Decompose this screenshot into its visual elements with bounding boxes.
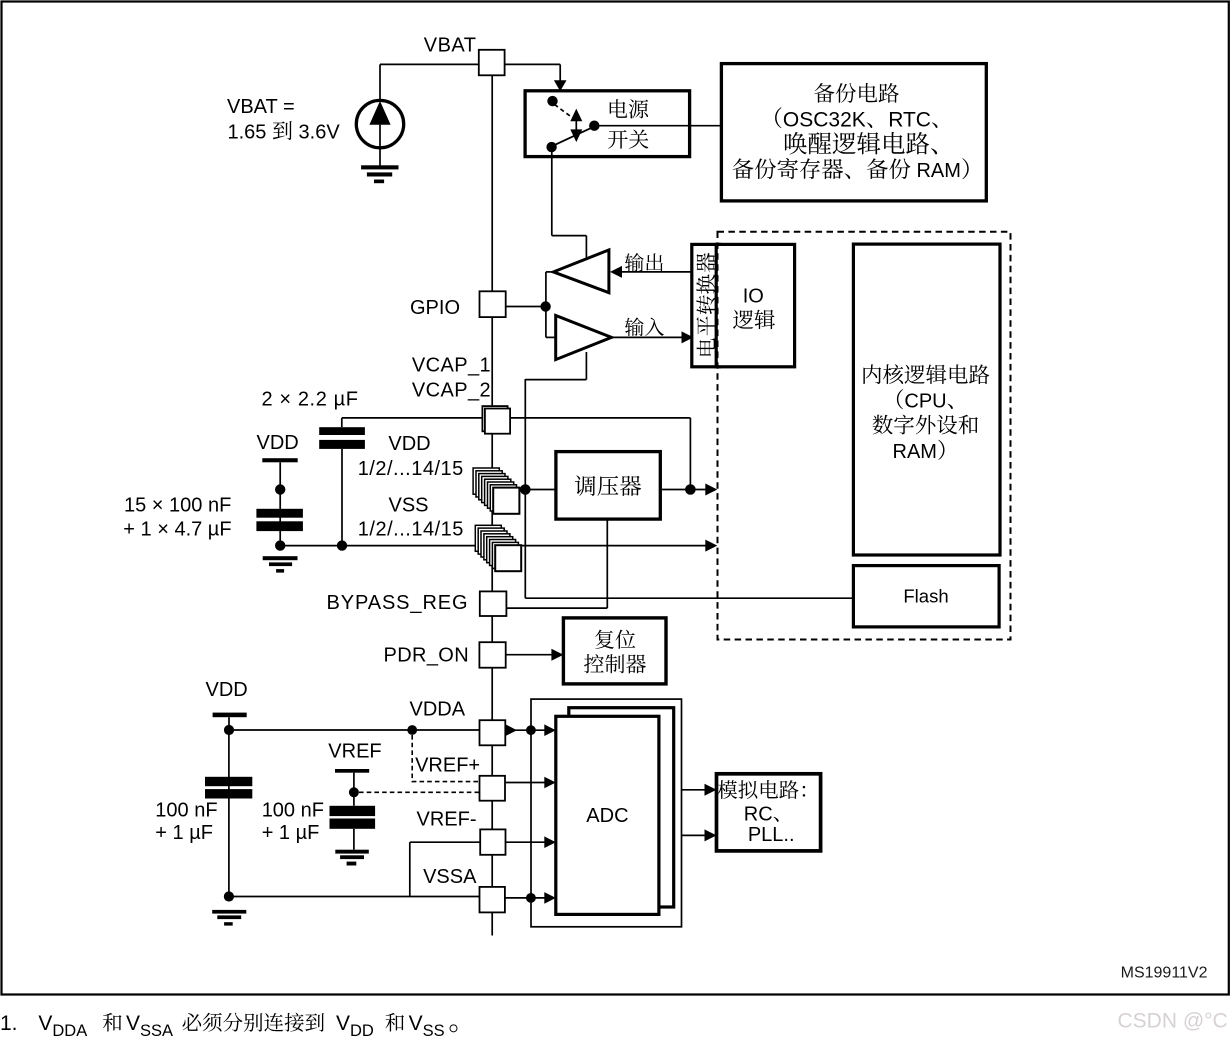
svg-text:CSDN @°C: CSDN @°C [1118, 1010, 1228, 1033]
label analog line3 [748, 824, 795, 846]
label ADC [586, 805, 628, 827]
svg-text:VSSA: VSSA [423, 866, 477, 888]
Flash box [853, 566, 999, 627]
wire ADC to analog 2 [682, 834, 706, 836]
svg-text:VCAP_2: VCAP_2 [412, 380, 491, 402]
pin VCAP back [482, 406, 507, 431]
label backup line4 [732, 158, 968, 182]
label VDD pins [388, 433, 430, 455]
wire VDDA rail [229, 729, 480, 731]
svg-text:RTC: RTC [888, 108, 931, 131]
level shifter box [692, 244, 720, 366]
pin PDR_ON [479, 642, 505, 668]
label VREF cap value2 [262, 822, 320, 844]
wire BYPASS_REG [506, 607, 607, 609]
note 1 footnote [0, 1012, 457, 1040]
wire VDDA to ADC [505, 729, 545, 731]
label VCAP_1 [412, 355, 491, 377]
label BYPASS_REG [326, 592, 468, 614]
arrow VREF- into ADC [544, 836, 556, 848]
VDD supply bar [262, 458, 297, 462]
pin VSSA [480, 887, 505, 913]
svg-text:1.: 1. [0, 1012, 18, 1035]
wire VBAT left [380, 63, 479, 65]
arrow into level shifter [682, 331, 694, 343]
label left cap value1 [155, 799, 217, 821]
svg-text:2 × 2.2 µF: 2 × 2.2 µF [262, 388, 359, 410]
node C1-VSS junction [337, 540, 347, 550]
svg-text:SS: SS [423, 1022, 445, 1040]
svg-text:100 nF: 100 nF [262, 799, 324, 821]
label switch 开关 [608, 130, 648, 149]
switch solid throw [553, 127, 593, 146]
svg-text:15 × 100 nF: 15 × 100 nF [124, 494, 231, 516]
wire switch to backup [594, 125, 721, 127]
dashed VREF to VREF+ [359, 791, 480, 793]
node VDD junction [520, 484, 531, 495]
label backup line2 [775, 107, 937, 131]
wire PDR_ON [506, 654, 552, 656]
core logic box [853, 244, 1000, 555]
svg-text:VCAP_1: VCAP_1 [412, 355, 491, 377]
capacitor C3 [330, 806, 376, 829]
pin VREF+ [480, 776, 506, 801]
label core line1 [863, 364, 989, 384]
VDD bottom supply bar [213, 713, 247, 718]
svg-text:VSS: VSS [389, 495, 429, 517]
svg-text:VREF-: VREF- [417, 809, 477, 831]
svg-text:+ 1 µF: + 1 µF [155, 822, 213, 844]
svg-text:RAM: RAM [893, 441, 937, 463]
label VCAP_2 [412, 380, 491, 402]
svg-text:PDR_ON: PDR_ON [384, 645, 469, 667]
arrow VSSA into ADC [544, 892, 556, 904]
svg-text:VDD: VDD [206, 679, 248, 701]
label VREF [328, 741, 381, 763]
watermark CSDN [1118, 1010, 1228, 1033]
dashed core logic area [718, 232, 1011, 640]
wire GPIO to buffers [506, 306, 546, 308]
label VBAT value line2 [228, 121, 341, 143]
svg-text:MS19911V2: MS19911V2 [1121, 965, 1208, 982]
svg-text:V: V [336, 1012, 350, 1035]
label core line3 [873, 415, 978, 435]
svg-text:VBAT =: VBAT = [227, 96, 295, 118]
ADC box front [556, 716, 659, 914]
label GPIO pin [410, 297, 460, 319]
node VSSA left junction [224, 891, 234, 901]
wire regulator to bypass [606, 519, 608, 608]
label backup line1 [814, 83, 899, 103]
wire VBAT right [505, 64, 561, 81]
wire VREF- to ADC [506, 841, 546, 843]
arrow VSS into core [705, 540, 717, 552]
label VREF+ [415, 754, 480, 776]
pin BYPASS_REG [480, 591, 507, 616]
pin stack VSS 1..15 [475, 525, 521, 571]
battery source V1 [356, 64, 403, 165]
pin stack VDD 1..15 [473, 468, 519, 514]
arrow into analog 2 [705, 829, 717, 841]
wire VSSA to ADC [505, 897, 545, 899]
svg-text:OSC32K: OSC32K [783, 108, 866, 131]
svg-text:1/2/...14/15: 1/2/...14/15 [358, 458, 464, 480]
wire input buffer bottom [525, 352, 586, 380]
wire VDD supply down [279, 462, 281, 545]
label MS19911V2 [1121, 965, 1208, 982]
svg-text:VDD: VDD [257, 432, 299, 454]
svg-text:ADC: ADC [586, 805, 628, 827]
wire VDD bottom stub [228, 717, 230, 730]
svg-text:RC: RC [744, 803, 773, 825]
output buffer [553, 250, 609, 293]
svg-text:VREF+: VREF+ [415, 754, 480, 776]
capacitor C1 stub top [341, 418, 343, 427]
svg-text:1.65: 1.65 [228, 121, 272, 143]
switch contact bottom [546, 142, 556, 152]
svg-text:+ 1 µF: + 1 µF [262, 822, 320, 844]
wire VREF stub [353, 773, 355, 806]
ground below battery [361, 165, 398, 183]
label core line2 [897, 389, 953, 412]
svg-text:VREF: VREF [328, 741, 381, 763]
svg-text:DDA: DDA [52, 1022, 87, 1040]
wire VCAP down link [689, 418, 691, 490]
VREF supply bar [335, 769, 369, 773]
label 15x100nF [124, 494, 231, 516]
reset controller box [563, 618, 666, 684]
svg-text:RAM: RAM [911, 160, 961, 182]
label backup line3 [785, 132, 937, 155]
svg-text:100 nF: 100 nF [155, 799, 217, 821]
wire main pin rail [491, 75, 493, 936]
label 电平转换器 vertical [696, 253, 715, 356]
capacitor C1 stub bottom [341, 449, 343, 546]
wire 输入 line [612, 336, 682, 338]
arrow VDDA into ADC [544, 724, 556, 736]
label IO [743, 285, 764, 307]
pin GPIO [480, 291, 506, 317]
pin VDDA [480, 720, 506, 745]
wire VSSA rail [229, 896, 479, 898]
wire ADC supply loop [531, 699, 682, 927]
svg-text:3.6V: 3.6V [293, 121, 340, 143]
wire VDD pin to regulator [519, 489, 556, 491]
wire regulator output [660, 489, 712, 491]
switch double arrow [570, 109, 582, 143]
ADC box back [569, 708, 674, 907]
label VBAT pin [424, 35, 477, 57]
arrow into reset controller [551, 649, 563, 661]
label VSS pins numbering [358, 519, 464, 541]
label VBAT value line1 [227, 96, 295, 118]
capacitor C1 [319, 427, 365, 449]
svg-text:PLL..: PLL.. [748, 824, 795, 846]
svg-text:VDDA: VDDA [410, 698, 466, 720]
wire VSS rail [280, 545, 711, 547]
ground below C3 [335, 850, 369, 866]
node VDD bottom junction [224, 725, 234, 735]
svg-text:V: V [126, 1012, 140, 1035]
node regulator output junction [685, 484, 696, 495]
wire VREF+ to ADC [505, 782, 545, 784]
wire VCAP to regulator node [342, 417, 691, 419]
svg-text:IO: IO [743, 285, 764, 307]
arrow into output buffer [610, 266, 622, 278]
svg-text:GPIO: GPIO [410, 297, 460, 319]
IO logic box [716, 244, 794, 366]
wire C3 to ground [353, 829, 355, 850]
node GPIO junction [540, 301, 550, 311]
label 复位 [595, 630, 635, 649]
capacitor C4 [205, 777, 252, 799]
svg-text:V: V [38, 1012, 52, 1035]
switch dashed throw [555, 105, 574, 119]
label PDR_ON [384, 645, 469, 667]
wire switch output down [552, 147, 587, 259]
wire 输出 line [620, 271, 693, 273]
label Flash [903, 586, 948, 607]
svg-text:1/2/...14/15: 1/2/...14/15 [358, 519, 464, 541]
svg-text:Flash: Flash [903, 586, 948, 607]
backup circuit box U1 [721, 64, 986, 201]
node C2-VSS junction [275, 540, 285, 550]
label 输出 [625, 253, 663, 272]
label VSSA [423, 866, 477, 888]
label +1x4.7uF [123, 518, 231, 540]
arrow into power switch [554, 80, 567, 91]
analog circuits box [717, 774, 821, 851]
wire VDD feed vertical [524, 379, 526, 598]
node VREF junction [349, 787, 359, 797]
pin VBAT [479, 50, 505, 76]
label analog line1 [718, 780, 805, 799]
node VSSA loop junction [526, 893, 536, 903]
arrow VREF+ into ADC [544, 777, 556, 789]
label VDDA [410, 698, 466, 720]
label core line4 [893, 440, 945, 463]
label VREF cap value1 [262, 799, 324, 821]
arrow VDDA 1 [506, 724, 518, 736]
svg-text:SSA: SSA [140, 1022, 173, 1040]
pin VCAP front [485, 409, 510, 434]
label VDD left [257, 432, 299, 454]
capacitor C2 [256, 509, 303, 531]
label left cap value2 [155, 822, 213, 844]
power switch box [525, 91, 690, 157]
input buffer [556, 316, 612, 360]
wire to Flash [525, 597, 853, 599]
label 调压器 [575, 475, 641, 496]
label switch 电源 [610, 99, 649, 118]
svg-text:VBAT: VBAT [424, 35, 477, 57]
label 控制器 [584, 654, 646, 673]
svg-text:DD: DD [350, 1022, 374, 1040]
switch pole [589, 121, 599, 131]
wire VREF- link [410, 842, 480, 896]
label analog line2 [744, 803, 779, 825]
label VDD pins numbering [358, 458, 464, 480]
node VDD supply junction [275, 484, 285, 494]
label VREF- [417, 809, 477, 831]
dashed VDDA to VREF+ [412, 735, 479, 782]
arrow regulator into core [705, 484, 717, 496]
arrow into analog 1 [705, 784, 717, 796]
switch contact top [547, 96, 557, 106]
label VSS pins [389, 495, 429, 517]
label 2x2.2uF [262, 388, 359, 410]
label VDD bottom [206, 679, 248, 701]
wire ADC to analog 1 [682, 789, 706, 791]
ground below VSSA [212, 910, 246, 926]
label IO 逻辑 [733, 310, 775, 330]
node VDDA loop junction [526, 725, 536, 735]
node VDDA junction [407, 725, 417, 735]
regulator box [556, 452, 660, 519]
svg-text:V: V [409, 1012, 423, 1035]
ground below C2 [263, 556, 298, 572]
svg-text:BYPASS_REG: BYPASS_REG [326, 592, 468, 614]
svg-text:+ 1 × 4.7 µF: + 1 × 4.7 µF [123, 518, 231, 540]
label 输入 [625, 317, 664, 336]
wire analog left leg [228, 730, 230, 897]
svg-text:VDD: VDD [388, 433, 430, 455]
pin VREF- [480, 829, 505, 854]
wire buffer spine [546, 272, 556, 338]
svg-text:CPU: CPU [904, 390, 946, 412]
